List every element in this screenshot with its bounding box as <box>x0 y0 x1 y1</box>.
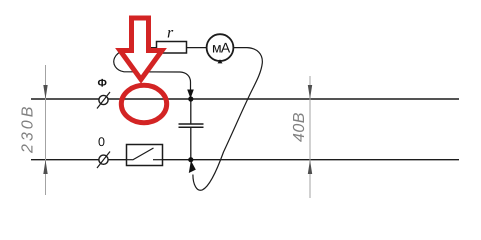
milliammeter PA1 circle <box>207 34 234 61</box>
svg-text:40В: 40В <box>291 112 308 142</box>
terminal X2 (neutral) circle <box>99 155 108 164</box>
terminal X1 (phase) circle <box>99 95 108 104</box>
annotation red ellipse <box>121 85 166 122</box>
resistor r body <box>157 42 187 54</box>
dimension 40B line <box>309 76 311 198</box>
switch S1 right stub <box>153 159 163 161</box>
svg-text:мА: мА <box>212 40 231 56</box>
dimension 230B line <box>45 65 47 195</box>
junction node A (top) <box>188 96 193 101</box>
terminal X2 slash <box>97 152 110 169</box>
dimension 40B top arrow <box>308 85 312 99</box>
arrowhead into bottom junction <box>189 161 196 174</box>
capacitor C1 bottom lead <box>190 128 192 160</box>
milliammeter bottom tick arrow <box>218 59 223 63</box>
dimension 230B top arrow <box>43 85 47 99</box>
terminal X1 slash <box>97 92 110 109</box>
svg-text:0: 0 <box>98 135 105 149</box>
arrowhead into top junction <box>187 90 194 99</box>
switch S1 blade <box>133 148 154 160</box>
svg-text:230В: 230В <box>20 104 37 154</box>
dimension 40B bottom arrow <box>308 160 312 174</box>
switch S1 left stub <box>127 159 133 161</box>
capacitor C1 bottom plate <box>179 126 204 128</box>
svg-text:Ф: Ф <box>98 78 107 90</box>
switch S1 box <box>127 145 163 166</box>
dimension 230B bottom arrow <box>43 160 47 174</box>
wire top bus line (phase) <box>31 98 459 100</box>
capacitor C1 top plate <box>179 123 204 125</box>
wire spline from meter to bottom junction <box>193 48 262 191</box>
wire resistor to meter <box>187 47 207 49</box>
svg-text:r: r <box>167 25 174 42</box>
capacitor C1 top lead <box>190 99 192 124</box>
wire bottom bus line (neutral) right segment <box>163 159 460 161</box>
annotation red arrow <box>120 18 162 80</box>
wire loop from resistor left to top junction <box>114 48 191 91</box>
wire bottom bus line (neutral) left segment <box>31 159 127 161</box>
junction node B (bottom) <box>188 157 193 162</box>
